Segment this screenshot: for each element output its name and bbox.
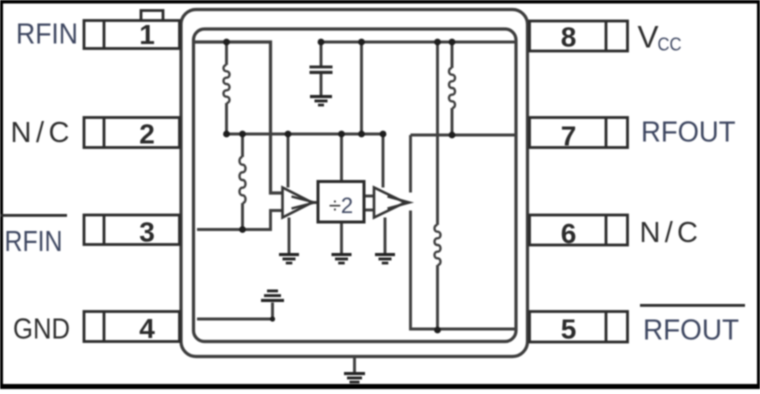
wire U1 output to divider (312, 201, 318, 204)
pin 1 box (84, 19, 180, 50)
svg-text:8: 8 (561, 22, 577, 53)
svg-text:6: 6 (561, 218, 577, 249)
capacitor C1 (310, 66, 333, 75)
node R1 bottom junction (223, 131, 230, 138)
wire U2 upper output riser (409, 135, 412, 193)
divider block U3 divide-by-2 (318, 182, 364, 223)
svg-text:7: 7 (561, 121, 577, 152)
node pin4 ground corner junction (270, 316, 275, 321)
node C1 top junction (318, 39, 325, 46)
svg-text:5: 5 (561, 314, 577, 345)
resistor R4 (435, 42, 441, 330)
wire bias to U1 top (287, 134, 290, 188)
pin 5 box (530, 312, 628, 345)
border frame top (0, 0, 760, 4)
svg-text:N/C: N/C (11, 117, 70, 149)
pin 8 box (530, 21, 628, 53)
svg-text:1: 1 (139, 19, 155, 50)
resistor R2 (240, 134, 246, 230)
node R4 top junction (434, 39, 441, 46)
svg-text:V: V (638, 19, 659, 55)
border frame left (0, 0, 3, 389)
svg-text:GND: GND (13, 314, 70, 346)
node R2 top junction (239, 131, 246, 138)
pin 2 box (84, 118, 180, 150)
ground under U1 (279, 253, 299, 264)
wire cap C1 top lead (320, 42, 323, 66)
pin 5 label RFOUT-bar (640, 304, 745, 347)
wire Vcc bus to pin 8 (321, 41, 516, 44)
svg-text:4: 4 (139, 313, 155, 344)
wire divider to ground (340, 222, 343, 253)
wire U2 output to pin 7 RFOUT (411, 134, 517, 137)
wire U2 to ground (384, 218, 387, 254)
wire divider to U2 lower input (364, 209, 374, 212)
pin 4 box (84, 312, 180, 345)
wire pin1 RFIN bus to U1 upper input (195, 42, 283, 193)
node R4 bottom junction (434, 327, 441, 334)
wire bias bus to U2 top (227, 134, 384, 188)
node U1 bias junction (285, 131, 292, 138)
die boundary (194, 29, 517, 342)
ground package exposed pad (344, 372, 365, 383)
wire cap C1 bottom lead (320, 74, 323, 95)
ground under U2 (375, 253, 395, 264)
op-amp U1 input buffer (283, 188, 315, 218)
border frame right (757, 0, 760, 389)
resistor R3 (449, 42, 455, 135)
svg-text:÷2: ÷2 (329, 193, 353, 218)
node divider bias junction (338, 131, 345, 138)
node bias bus tap junction (358, 131, 365, 138)
ground symbol at pin 4 (inverted) (261, 290, 284, 303)
svg-text:CC: CC (658, 35, 682, 55)
wire divider to U2 upper input (364, 195, 374, 198)
ground under divider (332, 253, 352, 264)
node R2 bottom junction (239, 226, 246, 233)
wire pin 4 GND to ground symbol (197, 303, 273, 320)
wire Vcc bus to bias bus (360, 42, 363, 134)
wire bias to divider top (340, 134, 343, 182)
wire package ground stem (353, 357, 356, 372)
svg-text:3: 3 (139, 217, 155, 248)
pin 1 index bump (141, 11, 163, 21)
svg-text:RFOUT: RFOUT (641, 117, 736, 149)
pin 6 box (530, 215, 628, 249)
svg-text:RFIN: RFIN (16, 19, 78, 51)
ground for C1 (310, 95, 332, 106)
pin 3 box (84, 215, 180, 248)
node R3 top junction (449, 39, 456, 46)
svg-text:2: 2 (139, 119, 155, 150)
pin 8 label Vcc (638, 19, 682, 55)
resistor R1 (224, 42, 230, 134)
wire U1 to ground (288, 218, 291, 254)
node U2 bias corner junction (380, 131, 387, 138)
border frame bottom (0, 384, 760, 389)
node R1 top junction (223, 39, 230, 46)
svg-text:RFOUT: RFOUT (643, 315, 739, 347)
pin 7 box (530, 118, 628, 152)
svg-text:N/C: N/C (640, 217, 699, 249)
svg-text:RFIN: RFIN (5, 226, 63, 258)
wire pin3 RFIN-bar to U1 lower input (197, 211, 283, 230)
op-amp U2 output buffer (374, 188, 410, 218)
node R3 bottom junction (449, 132, 456, 139)
wire U2 lower output to pin 5 RFOUT-bar (411, 211, 517, 330)
node Vcc bias tap junction (358, 39, 365, 46)
IC package outline (181, 10, 528, 357)
pin 3 label RFIN-bar (0, 214, 67, 258)
